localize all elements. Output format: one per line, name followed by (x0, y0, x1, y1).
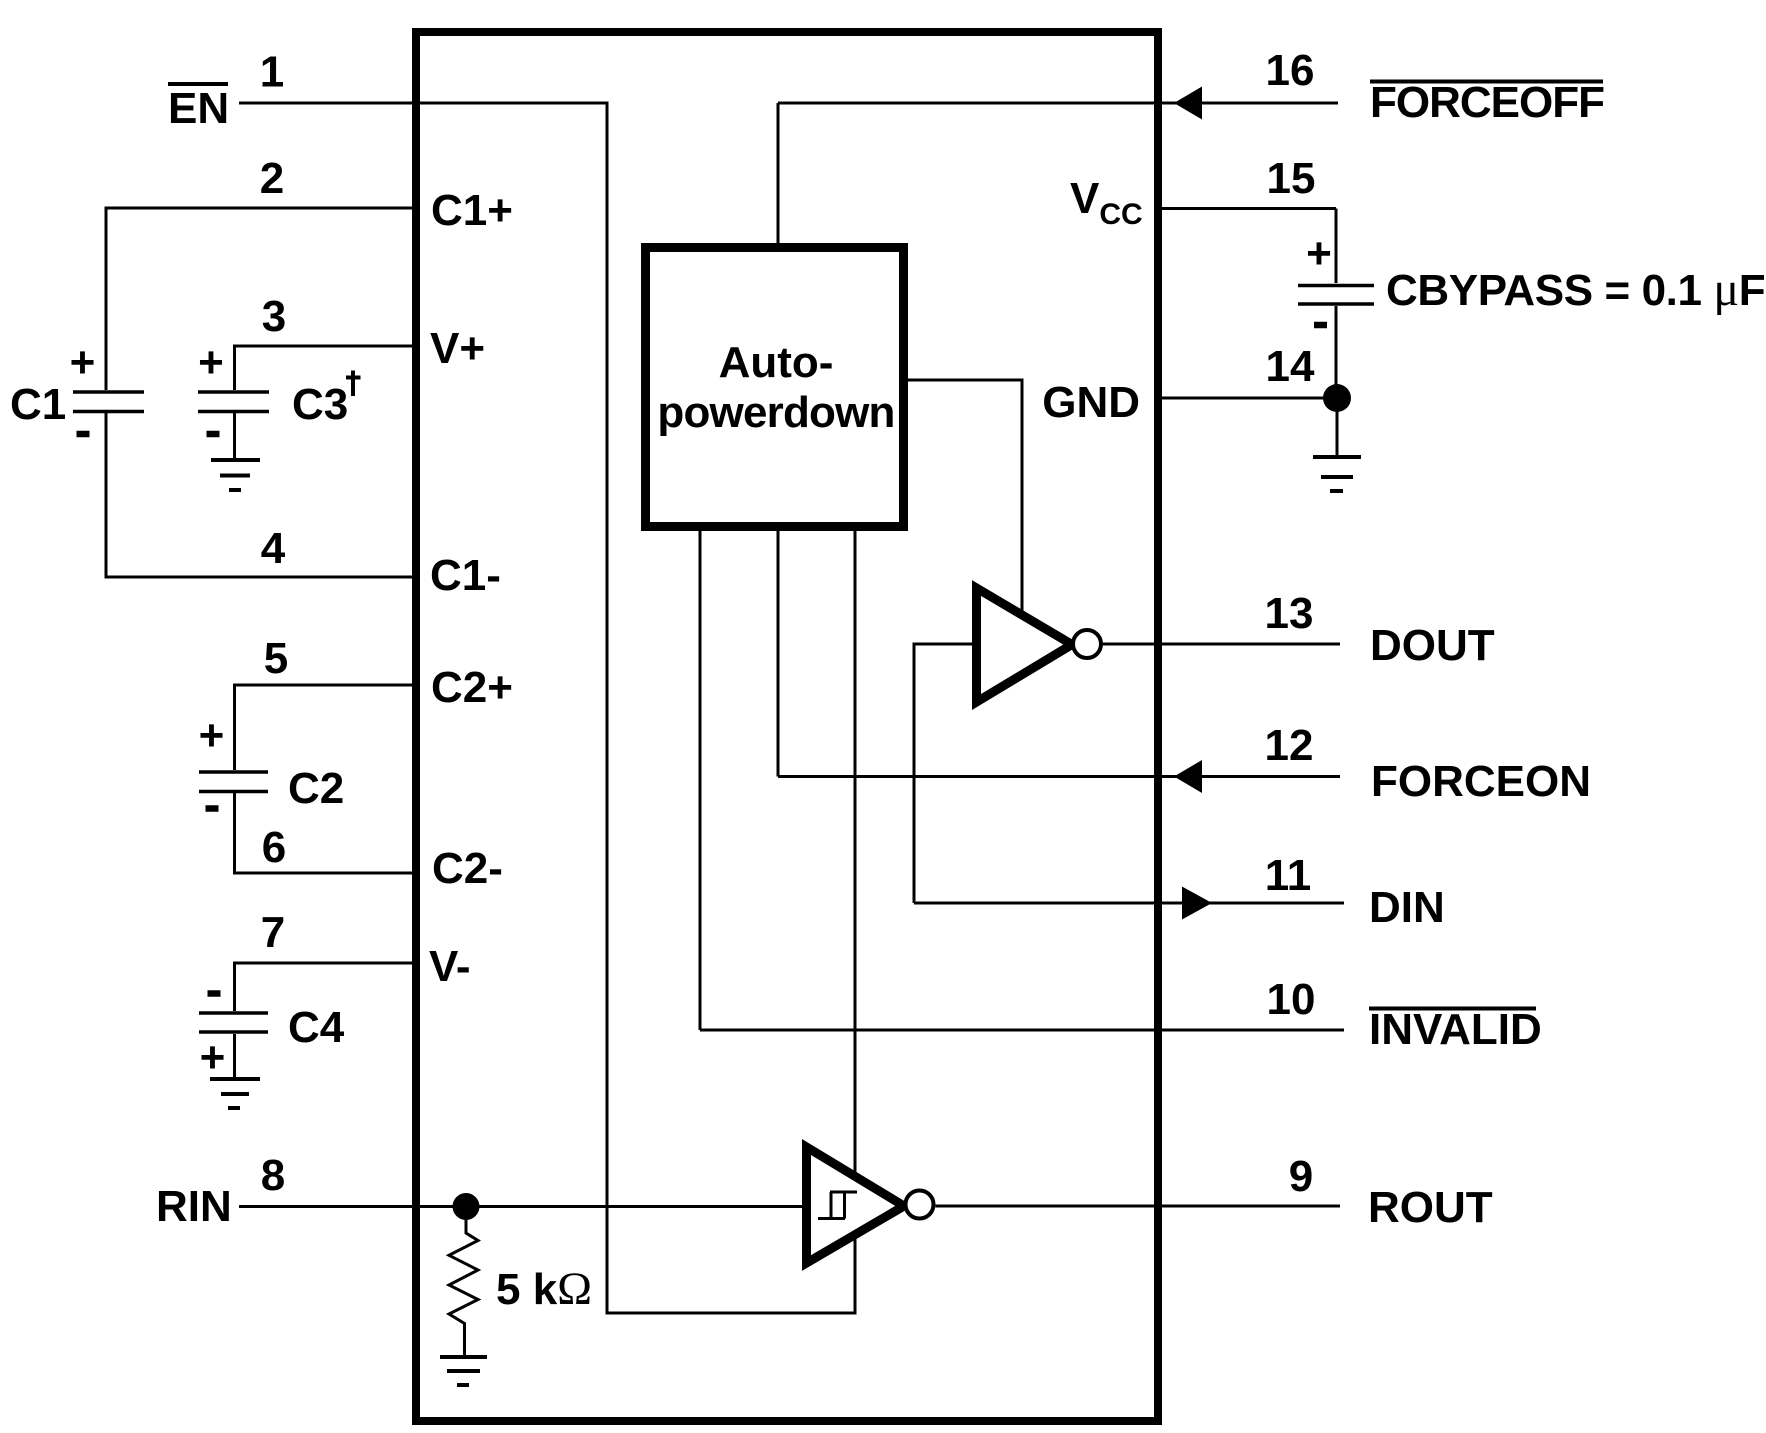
Auto-powerdown block U1 (646, 248, 904, 527)
wire U1 to receiver enable (854, 531, 857, 1175)
svg-text:+: + (70, 338, 96, 387)
svg-text:DIN: DIN (1369, 883, 1445, 932)
wire FORCEOFF internal vertical to U1 top (777, 103, 780, 243)
svg-text:GND: GND (1042, 378, 1140, 427)
pin 7 wire V- (235, 963, 413, 1011)
pin 10 INVALID wire (700, 1029, 1344, 1032)
svg-text:+: + (200, 1033, 226, 1082)
svg-text:C1-: C1- (430, 551, 501, 600)
svg-text:Auto-: Auto- (719, 338, 834, 387)
svg-text:RIN: RIN (156, 1182, 232, 1231)
svg-text:12: 12 (1265, 721, 1314, 770)
svg-text:10: 10 (1267, 975, 1316, 1024)
svg-text:C2-: C2- (432, 844, 503, 893)
arrowhead pin 16 (1174, 87, 1202, 120)
capacitor C3 (198, 392, 269, 412)
svg-text:VCC: VCC (1070, 174, 1143, 231)
svg-text:DOUT: DOUT (1370, 621, 1495, 670)
svg-text:7: 7 (261, 908, 285, 957)
svg-text:FORCEON: FORCEON (1371, 757, 1591, 806)
pin 6 wire C2- (235, 793, 413, 873)
pin 3 wire V+ (235, 346, 413, 390)
wire C3 to ground (233, 413, 236, 458)
wire U1 to FORCEON (777, 531, 780, 777)
svg-text:CBYPASS = 0.1 μF: CBYPASS = 0.1 μF (1386, 263, 1765, 316)
svg-text:13: 13 (1265, 589, 1314, 638)
pin 15 VCC wire (1162, 207, 1336, 210)
bubble U3 (906, 1191, 934, 1219)
polarity minus C2 (206, 805, 219, 812)
svg-text:6: 6 (262, 823, 286, 872)
pin 9 ROUT wire (936, 1205, 1341, 1208)
arrowhead pin 11 (1182, 887, 1212, 920)
svg-text:+: + (198, 338, 224, 387)
svg-text:4: 4 (261, 524, 286, 573)
svg-text:C3: C3 (292, 380, 348, 429)
svg-text:FORCEOFF: FORCEOFF (1370, 78, 1604, 127)
wire DIN to driver input (914, 644, 972, 903)
wire GND node to ground (1336, 398, 1339, 455)
overline INVALID (1369, 1007, 1536, 1011)
polarity minus C4 (208, 990, 221, 997)
polarity minus C1 (77, 431, 90, 438)
pin 5 wire C2+ (235, 685, 413, 770)
wire U1 output to driver (908, 380, 1022, 612)
ground below R1 (440, 1357, 487, 1385)
svg-text:C4: C4 (288, 1003, 345, 1052)
pin 8 RIN wire (239, 1205, 806, 1208)
node GND junction dot (1323, 384, 1351, 412)
svg-text:1: 1 (260, 48, 284, 97)
bubble U2 (1073, 630, 1101, 658)
svg-text:C1+: C1+ (431, 186, 513, 235)
arrowhead pin 12 (1174, 760, 1202, 793)
ground below C4 (210, 1079, 260, 1108)
IC boundary (416, 32, 1158, 1421)
capacitor C2 (199, 772, 268, 792)
svg-text:V+: V+ (430, 324, 485, 373)
svg-text:16: 16 (1266, 46, 1315, 95)
pin 11 DIN wire (914, 902, 1344, 905)
svg-text:+: + (199, 711, 225, 760)
capacitor CBYPASS (1298, 286, 1374, 305)
ground below CBYPASS (1313, 457, 1361, 491)
op-amp U3 receiver inverter (807, 1147, 905, 1263)
pin 12 FORCEON wire (778, 775, 1340, 778)
polarity minus CBYPASS (1314, 322, 1327, 329)
wire U1 to INVALID (699, 531, 702, 1030)
op-amp U2 driver inverter (977, 588, 1073, 702)
ground below C3 (211, 460, 260, 490)
overline FORCEOFF (1370, 80, 1603, 84)
svg-text:5: 5 (264, 634, 288, 683)
schmitt hysteresis symbol (818, 1192, 857, 1219)
svg-text:powerdown: powerdown (657, 388, 894, 437)
pin 13 DOUT wire (1103, 643, 1340, 646)
overline EN (168, 82, 228, 86)
svg-text:C2: C2 (288, 764, 344, 813)
polarity minus C3 (207, 431, 220, 438)
svg-text:+: + (1306, 229, 1332, 278)
svg-text:9: 9 (1289, 1152, 1313, 1201)
wire VCC to CBYPASS (1335, 209, 1338, 284)
svg-text:14: 14 (1266, 342, 1315, 391)
svg-text:5 kΩ: 5 kΩ (496, 1263, 592, 1315)
resistor R1 5k (449, 1207, 478, 1356)
svg-text:C1: C1 (10, 380, 66, 429)
svg-text:15: 15 (1267, 154, 1316, 203)
node RIN junction dot (453, 1193, 480, 1220)
pin 4 wire C1- (106, 413, 412, 577)
svg-text:11: 11 (1265, 851, 1312, 900)
node EN net: pin 1 wire (239, 103, 855, 1313)
wire C4 to ground (233, 1034, 236, 1077)
pin 14 GND wire (1162, 397, 1338, 400)
svg-text:ROUT: ROUT (1368, 1183, 1493, 1232)
svg-text:EN: EN (168, 84, 229, 133)
svg-text:3: 3 (262, 292, 286, 341)
svg-text:INVALID: INVALID (1369, 1005, 1542, 1054)
svg-text:C2+: C2+ (431, 663, 513, 712)
wire CBYPASS to GND node (1335, 306, 1338, 398)
svg-text:V-: V- (429, 942, 471, 991)
svg-text:8: 8 (261, 1151, 285, 1200)
svg-text:2: 2 (260, 154, 284, 203)
pin 16 FORCEOFF wire (778, 102, 1338, 105)
capacitor C4 (199, 1013, 268, 1032)
node C1 net: pin 2 wire (106, 208, 412, 390)
capacitor C1 (73, 392, 144, 412)
